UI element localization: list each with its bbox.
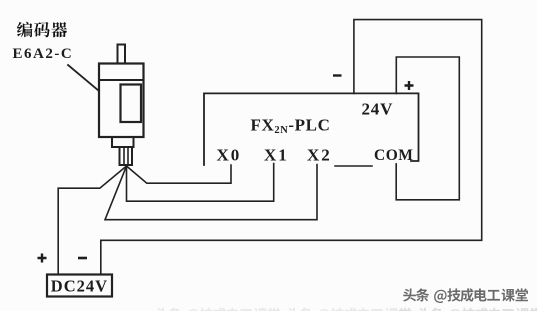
svg-text:DC24V: DC24V [51,277,108,296]
wire: DC24V minus up and around to PLC 0V terminal (outer loop) [101,20,482,275]
svg-text:X0: X0 [217,145,242,164]
watermark emboss highlight [402,287,527,302]
cable gland rib 2 [127,147,129,165]
svg-text:E6A2-C: E6A2-C [13,46,74,62]
cable gland rib 1 [123,147,125,165]
wire: PLC 24V terminal loop to COM terminal (inner loop) [396,57,459,200]
minus sign at top wire [333,74,342,76]
plus sign at 24V wire [405,81,414,90]
wire: encoder phase B to PLC X1 [127,164,274,202]
encoder shaft [118,45,126,64]
DC24V supply box [47,275,112,297]
PLC box outline (open bottom) [204,93,419,165]
spare terminal line between X2 and COM [335,165,372,167]
svg-text:FX2N-PLC: FX2N-PLC [251,116,331,137]
encoder label (Chinese): bian ma qi [17,22,67,38]
watermark: toutiao @ jicheng dian gong ketang [403,288,528,303]
svg-text:X2: X2 [307,145,332,164]
encoder cable gland [120,147,133,165]
plus sign at DC24V [38,254,47,263]
wire: encoder phase A to PLC X0 [127,165,232,183]
encoder inner window [121,85,142,123]
wire: encoder phase Z to PLC X2 [105,165,317,220]
svg-text:X1: X1 [264,145,289,164]
faint clipped watermark row at bottom [156,308,537,311]
leader line from E6A2-C label to encoder body [68,65,99,91]
encoder flange line [99,79,144,81]
svg-text:COM: COM [374,147,413,164]
wire: encoder +24V lead to DC24V plus terminal [58,166,126,275]
svg-text:24V: 24V [362,100,394,119]
minus sign at DC24V [78,257,87,260]
encoder body [99,64,144,138]
encoder connector block [112,137,134,147]
